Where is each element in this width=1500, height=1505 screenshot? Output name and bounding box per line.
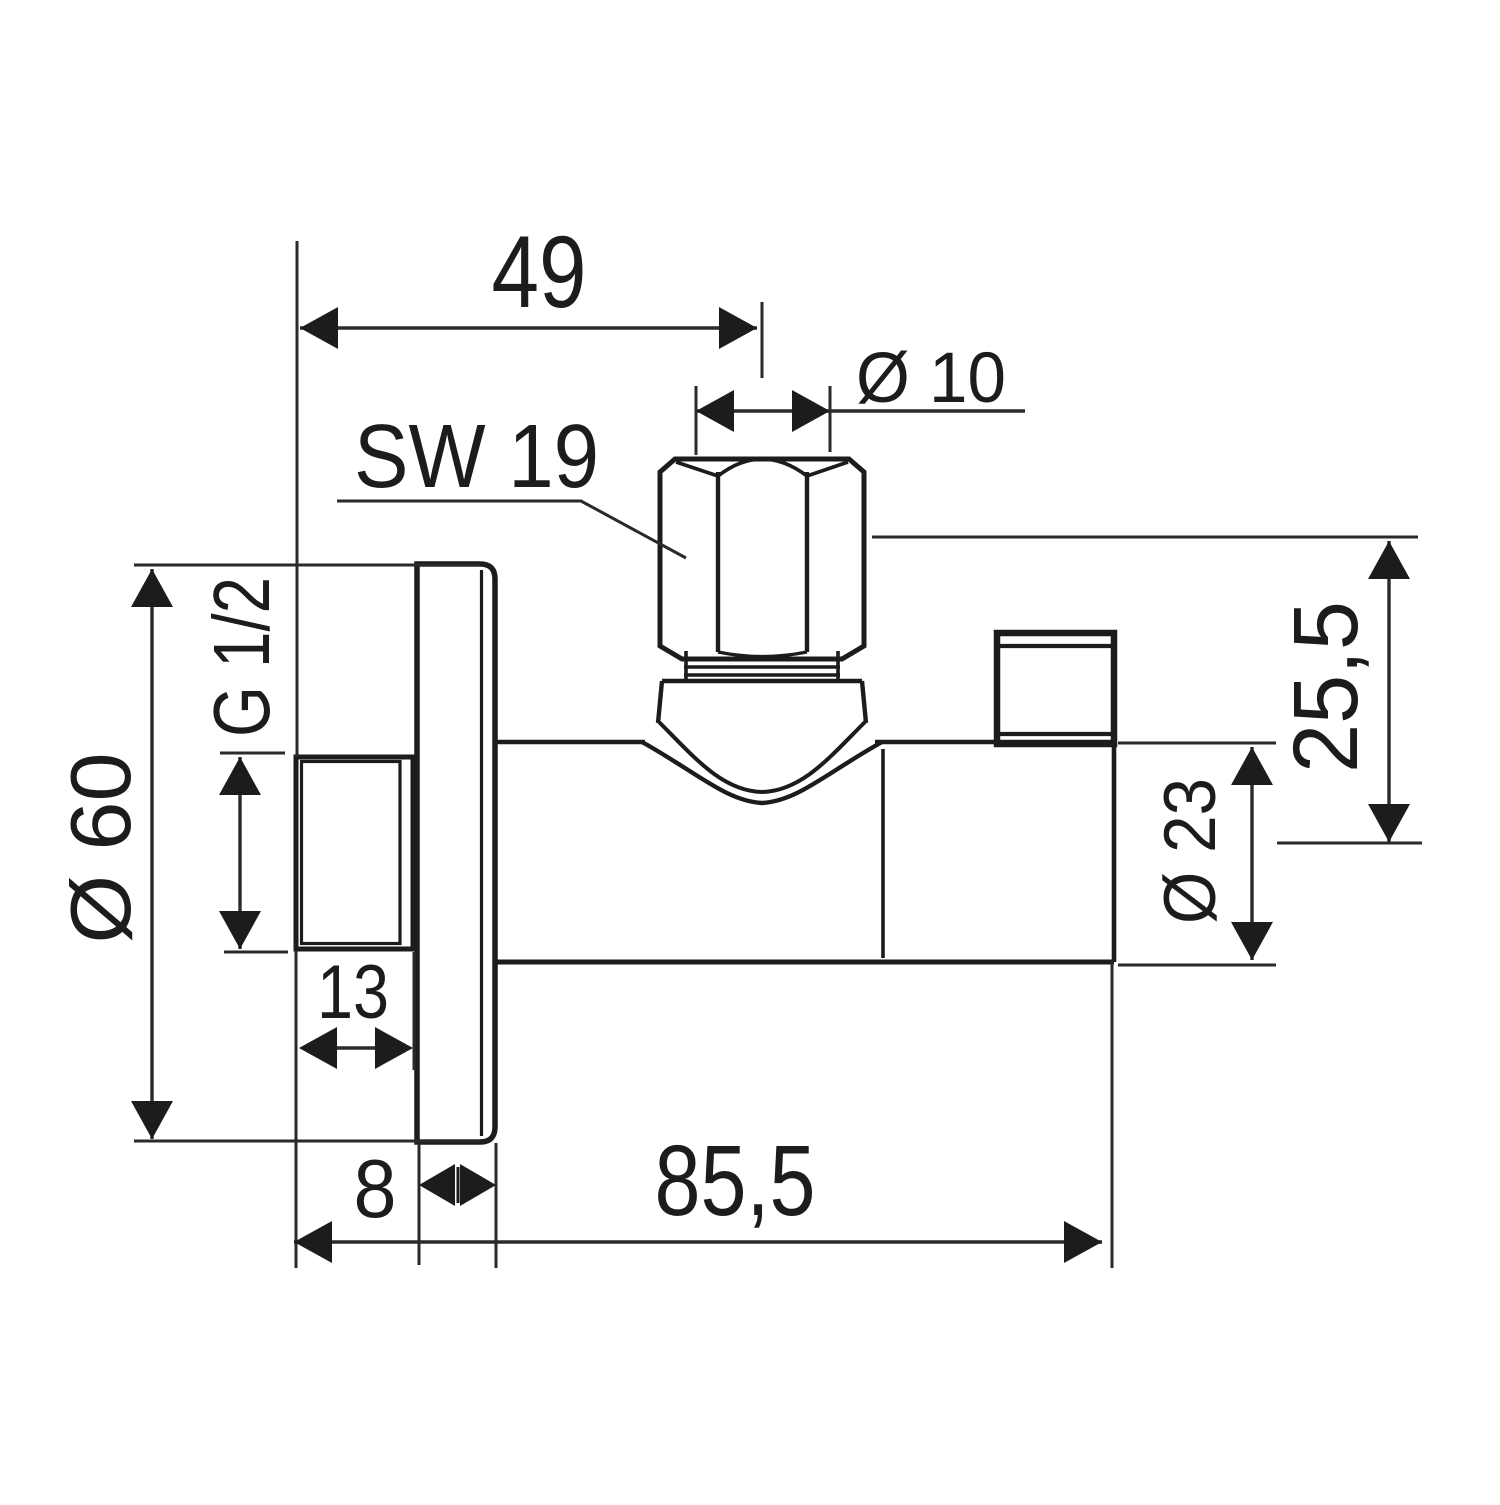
label SW 19 leader line — [337, 501, 686, 558]
bonnet dome trapezoid — [658, 681, 866, 723]
valve body top edge right segment — [875, 740, 1114, 745]
dimension diameter 10 arrow right — [792, 390, 830, 432]
dimension 8 arrow left — [419, 1164, 455, 1206]
svg-text:8: 8 — [354, 1142, 397, 1235]
dimension 25,5 line — [1387, 541, 1390, 842]
dimension 49 extension line right (centerline tick) — [761, 302, 764, 378]
svg-text:Ø 60: Ø 60 — [54, 753, 149, 944]
dimension 25,5 arrow top — [1368, 541, 1410, 579]
svg-text:25,5: 25,5 — [1275, 601, 1377, 773]
dimension G 1/2 arrow top — [219, 757, 261, 795]
dimension G 1/2 extension top — [220, 752, 285, 755]
dimension 8 extension left — [418, 1143, 421, 1265]
hex nut bottom chamfer arc — [718, 652, 807, 657]
dimension diameter 60 arrow top — [131, 569, 173, 607]
dimension diameter 23 extension bottom — [1118, 964, 1276, 967]
dimension G 1/2 line — [238, 757, 241, 949]
dimension diameter 10 line — [696, 409, 1025, 412]
dimension diameter 23 arrow top — [1231, 747, 1273, 785]
valve body face line between body and outlet — [881, 749, 885, 958]
dimension 49 arrow left — [300, 307, 338, 349]
dimension G 1/2 extension bottom — [224, 951, 288, 954]
dimension 25,5 arrow bottom — [1368, 804, 1410, 842]
dimension 13 extension right — [413, 952, 416, 1070]
svg-text:G 1/2: G 1/2 — [197, 577, 286, 737]
inlet connector G1/2 outer rect — [296, 757, 413, 949]
dimension 13 arrow left — [299, 1027, 337, 1069]
dimension 25,5 extension bottom — [1277, 842, 1422, 845]
svg-text:13: 13 — [317, 950, 389, 1035]
wall flange inner edge line — [480, 570, 483, 1136]
hex nut facet line left — [716, 472, 720, 652]
dimension diameter 23 line — [1250, 747, 1253, 960]
dimension diameter 60 extension bottom — [134, 1140, 480, 1143]
dimension 85,5 line — [294, 1240, 1102, 1243]
inlet connector inner rect — [302, 762, 401, 944]
collar ring under hex nut — [684, 651, 840, 679]
svg-text:85,5: 85,5 — [655, 1125, 816, 1237]
dimension 85,5 extension right — [1111, 962, 1114, 1268]
dimension 49 arrow right — [719, 307, 757, 349]
svg-text:Ø 10: Ø 10 — [856, 339, 1006, 418]
bonnet dome outer curve — [642, 742, 882, 803]
dimension diameter 23 extension top — [1118, 742, 1276, 745]
wall flange outer profile — [417, 564, 495, 1142]
dimension 8 extension right — [495, 1143, 498, 1268]
dimension 13 arrow right — [375, 1027, 413, 1069]
dimension diameter 60 line — [150, 569, 153, 1139]
dimension diameter 60 arrow bottom — [131, 1101, 173, 1139]
valve body top edge left segment — [497, 740, 645, 745]
knob inner top line — [1000, 644, 1112, 648]
bonnet dome inner curve — [659, 722, 865, 792]
dimension diameter 10 arrow left — [696, 390, 734, 432]
hex nut SW19 outline — [660, 459, 864, 659]
dimension 13 line — [336, 1046, 376, 1049]
dimension 49 line — [300, 326, 757, 329]
dimension 25,5 extension top — [872, 536, 1418, 539]
dimension 49 extension line left — [296, 241, 299, 757]
dimension diameter 23 arrow bottom — [1231, 922, 1273, 960]
knob on outlet — [997, 633, 1114, 744]
hex nut top chamfer scallop — [676, 459, 848, 476]
dimension 8 arrow right — [460, 1164, 496, 1206]
dimension 8 middle tick — [457, 1167, 460, 1203]
svg-text:SW 19: SW 19 — [354, 407, 599, 507]
svg-text:Ø 23: Ø 23 — [1150, 778, 1231, 924]
valve body bottom edge — [496, 960, 1114, 965]
dimension G 1/2 arrow bottom — [219, 911, 261, 949]
svg-text:49: 49 — [492, 215, 587, 329]
dimension 85,5 arrow right — [1064, 1221, 1102, 1263]
valve body right outlet edge — [1112, 741, 1117, 962]
dimension 85,5 arrow left — [294, 1221, 332, 1263]
hex nut facet line right — [805, 472, 809, 652]
dimension 85,5 extension left — [295, 950, 298, 1268]
dimension diameter 10 extension lines — [696, 386, 830, 455]
dimension diameter 60 extension top — [134, 564, 480, 567]
knob inner bottom line — [1000, 732, 1112, 736]
